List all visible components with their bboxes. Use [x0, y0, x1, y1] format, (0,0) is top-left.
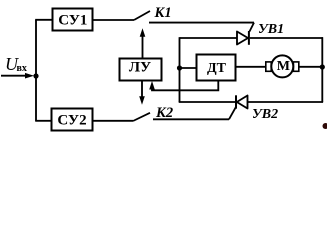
wire K1 to UV1 gate: [149, 22, 254, 24]
svg-text:УВ2: УВ2: [252, 107, 278, 122]
node DT junction: [177, 65, 182, 70]
wire right vertical bus: [321, 37, 323, 102]
svg-text:вх: вх: [17, 63, 27, 74]
gate lead UV1: [250, 23, 255, 32]
thyristor UV1: [237, 31, 249, 45]
block SU2: [52, 109, 93, 131]
wire DT output to LU: [152, 81, 218, 91]
wire left power vertical: [179, 37, 181, 102]
wire to SU2: [35, 120, 51, 122]
thyristor UV2: [236, 95, 248, 108]
label Uvx: [5, 54, 27, 74]
arrow into LU bottom: [149, 81, 155, 90]
wire K2 to UV2 gate: [153, 118, 229, 120]
wire junction to DT: [180, 67, 197, 69]
block DT: [197, 55, 236, 81]
node input junction: [33, 73, 38, 78]
arrow LU to K1: [140, 28, 146, 58]
svg-text:ЛУ: ЛУ: [129, 60, 151, 76]
stray mark dot: [323, 123, 327, 129]
arrow LU to K2: [139, 81, 145, 105]
wire SU1 to switch K1: [93, 19, 135, 21]
svg-text:СУ2: СУ2: [57, 113, 86, 129]
wire left power bottom corner to UV2 cathode: [179, 101, 236, 103]
block LU: [120, 59, 162, 81]
wire bottom right to UV2 anode: [247, 101, 323, 103]
wire left vertical bus: [35, 20, 37, 121]
wire to SU1: [35, 19, 52, 21]
svg-text:М: М: [277, 59, 290, 74]
wire SU2 to switch K2: [93, 120, 134, 122]
motor M: [266, 55, 299, 77]
svg-text:ДТ: ДТ: [207, 61, 227, 76]
svg-text:УВ1: УВ1: [258, 22, 284, 37]
gate lead UV2: [229, 107, 236, 119]
input arrow Uvx: [1, 73, 34, 79]
node motor-right junction: [320, 64, 325, 69]
wire UV1 cathode to right bus: [250, 37, 323, 39]
svg-text:СУ1: СУ1: [58, 13, 87, 29]
switch K1 blade: [134, 11, 150, 20]
block SU1: [53, 9, 93, 31]
svg-text:К1: К1: [154, 5, 172, 21]
wire DT to motor: [236, 66, 267, 68]
wire UV1 anode: [180, 37, 238, 39]
wire motor to right bus: [299, 66, 323, 68]
switch K2 blade: [133, 113, 150, 121]
